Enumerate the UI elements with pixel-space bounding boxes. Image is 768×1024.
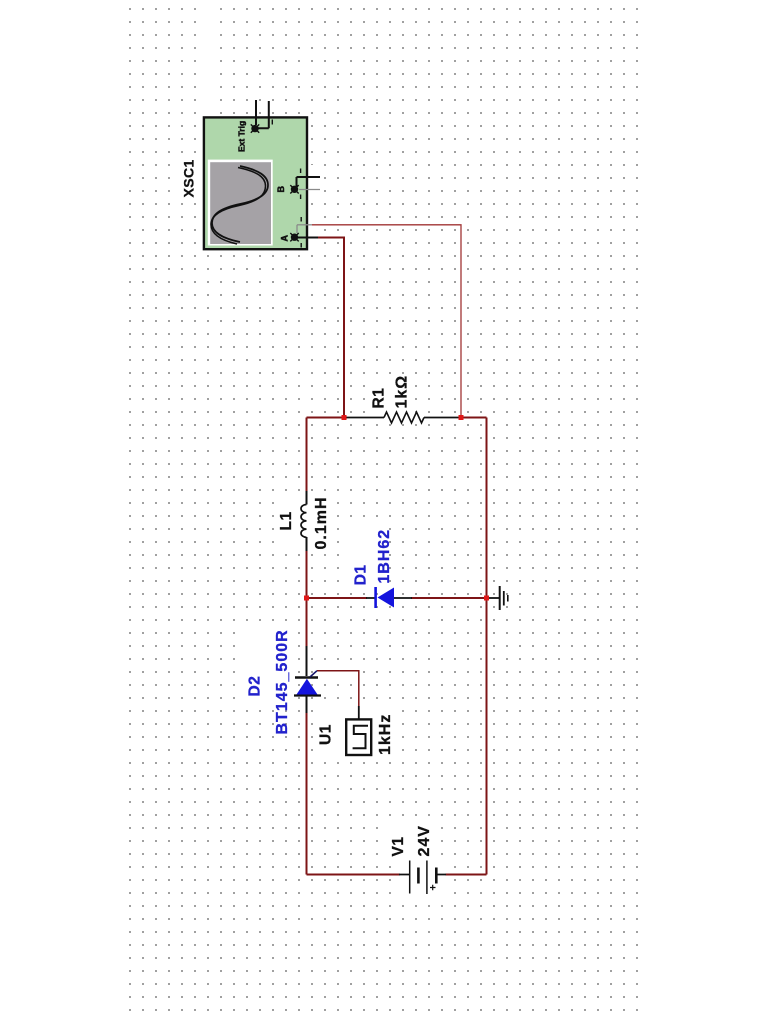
svg-text:V1: V1 <box>390 837 407 857</box>
svg-text:BT145_500R: BT145_500R <box>274 629 291 734</box>
svg-text:R1: R1 <box>371 388 388 409</box>
svg-text:B: B <box>276 186 286 193</box>
svg-text:L1: L1 <box>278 511 295 530</box>
svg-text:0.1mH: 0.1mH <box>313 496 330 549</box>
svg-text:A: A <box>280 235 290 242</box>
svg-text:D2: D2 <box>247 676 264 697</box>
svg-text:1kHz: 1kHz <box>377 714 394 755</box>
svg-text:24V: 24V <box>416 825 433 856</box>
svg-text:1BH62: 1BH62 <box>376 529 393 584</box>
svg-text:XSC1: XSC1 <box>181 159 197 197</box>
svg-text:D1: D1 <box>353 564 370 585</box>
svg-text:1kΩ: 1kΩ <box>394 375 411 409</box>
svg-text:U1: U1 <box>318 724 335 745</box>
svg-text:Ext Trig: Ext Trig <box>237 121 247 152</box>
